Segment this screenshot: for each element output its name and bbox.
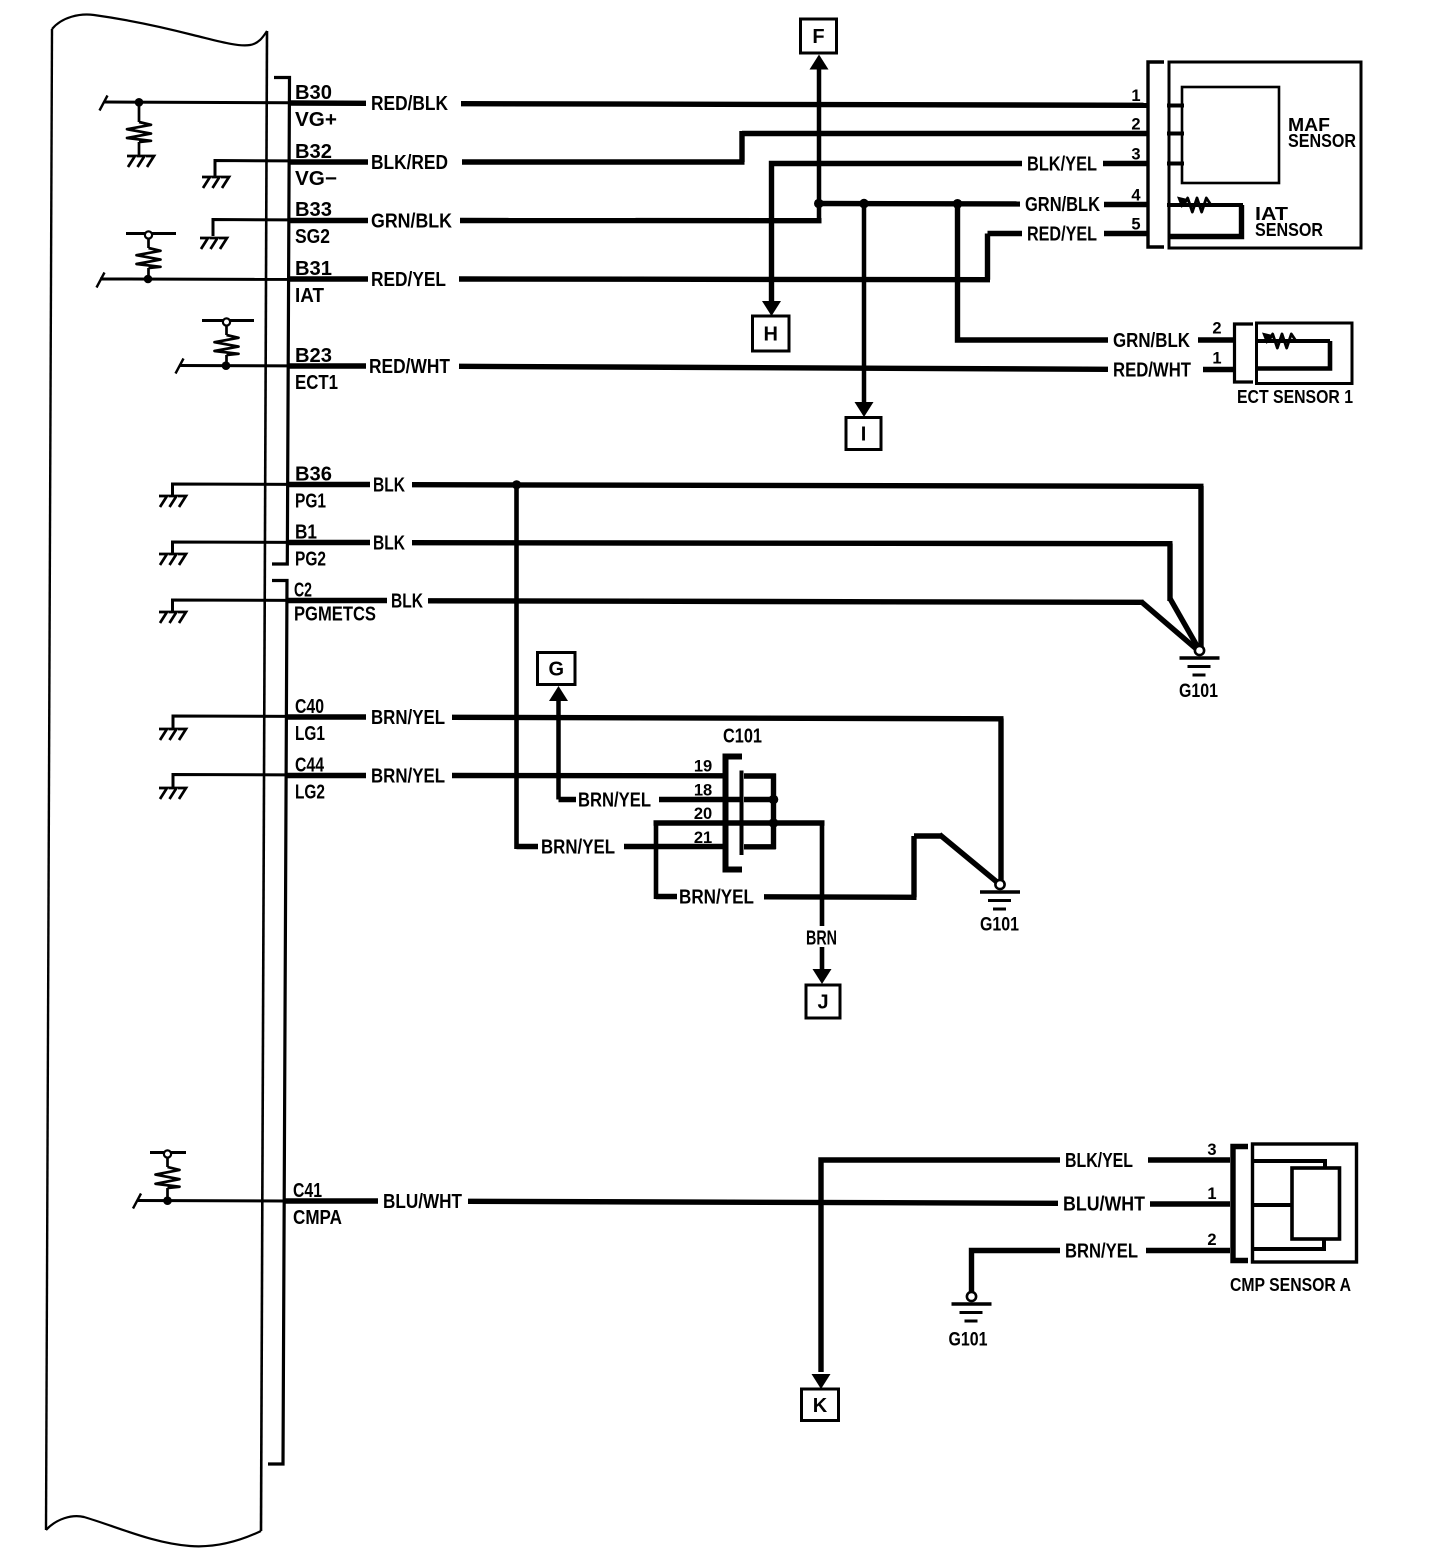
- connector K box: [802, 1389, 839, 1421]
- wire BRN/YEL up step: [911, 836, 916, 897]
- svg-text:G101: G101: [949, 1330, 988, 1351]
- svg-text:2: 2: [1207, 1231, 1216, 1249]
- ECT sensor box: [1257, 323, 1353, 384]
- pin C2 label: [294, 580, 312, 602]
- CMP pin 2 internal wiring: [1254, 1238, 1324, 1249]
- wire BLK/YEL CMP pin 3 stub: [1148, 1157, 1230, 1162]
- pin PG1 label: [295, 491, 326, 513]
- node junction tie-20: [769, 818, 779, 828]
- pin 2 label (MAF): [1131, 116, 1140, 134]
- svg-text:LG2: LG2: [295, 782, 325, 804]
- label BRN/YEL (C101 pin 21): [541, 837, 615, 859]
- internal supply tap C41 (bar+circle): [150, 1150, 186, 1157]
- connector J box: [806, 985, 840, 1018]
- svg-text:BLK: BLK: [391, 591, 423, 613]
- wire C41 internal (ECU): [137, 1199, 285, 1203]
- label BRN (J): [803, 926, 841, 950]
- wire BRN/YEL C44 to C101 pin 19: [452, 773, 726, 779]
- wire BLK/YEL corner (CMP): [821, 1160, 1060, 1372]
- wire GRN/BLK to ECT corner: [958, 204, 1109, 341]
- ECT loop wiring: [1257, 341, 1330, 369]
- arrow into F: [810, 55, 829, 70]
- wire BLK drop B36 to C101 pin 21: [514, 485, 519, 850]
- svg-text:BLK: BLK: [373, 475, 405, 497]
- svg-text:VG−: VG−: [295, 168, 337, 190]
- label BLK/RED: [371, 152, 448, 174]
- pin 19 label: [694, 758, 712, 776]
- svg-text:K: K: [813, 1395, 828, 1417]
- node junction GRN/BLK-I: [859, 199, 869, 209]
- svg-text:SG2: SG2: [295, 226, 330, 248]
- connector G box: [538, 653, 576, 685]
- pin 5 label (MAF): [1131, 216, 1140, 234]
- pin 20 label: [694, 805, 712, 823]
- node junction BLK-B36/C101-21: [512, 480, 521, 489]
- wire drop to connector J: [820, 823, 825, 969]
- svg-text:CMPA: CMPA: [293, 1207, 342, 1229]
- svg-text:SENSOR: SENSOR: [1255, 220, 1323, 240]
- label BLK/YEL (MAF pin 3): [1027, 154, 1097, 176]
- pin B23 label: [295, 345, 332, 367]
- wire C101 pin 19 stub: [744, 773, 776, 778]
- label GRN/BLK (ECT pin 2): [1113, 330, 1190, 352]
- CMP pin 1 internal stub: [1254, 1203, 1293, 1207]
- wire BLK B1 segment: [288, 540, 370, 545]
- node junction B23-resistor: [222, 361, 231, 370]
- wire BRN/YEL pin18 right: [659, 797, 742, 802]
- svg-text:BRN: BRN: [806, 928, 837, 950]
- arrow into I: [855, 402, 874, 417]
- svg-text:5: 5: [1131, 216, 1140, 234]
- svg-text:3: 3: [1207, 1141, 1216, 1159]
- wire BLU/WHT long: [468, 1201, 1058, 1203]
- wire RED/WHT B23 segment: [288, 363, 366, 368]
- arrow into G: [549, 686, 568, 701]
- pin PGMETCS label: [294, 604, 376, 626]
- wire BLK/YEL pin 3 stub: [1103, 161, 1148, 166]
- svg-text:PGMETCS: PGMETCS: [294, 604, 376, 626]
- pin B32 label: [295, 141, 332, 163]
- wire BLK B1 long: [412, 543, 1173, 544]
- svg-text:3: 3: [1131, 146, 1140, 164]
- label G101 (right): [1179, 681, 1218, 702]
- connector H box: [753, 316, 790, 351]
- pin B1 label: [295, 522, 317, 544]
- terminal slash B30: [100, 96, 108, 111]
- wire RED/YEL riser: [985, 234, 990, 280]
- ECT thermistor: [1255, 333, 1330, 349]
- label BRN/YEL (pin 20 ground): [679, 887, 754, 909]
- label GRN/BLK: [371, 211, 452, 233]
- wire BRN/YEL C40 long: [452, 717, 1004, 719]
- ground G101 (right): [1180, 646, 1220, 675]
- ground (C40 internal): [159, 729, 186, 740]
- svg-text:IAT: IAT: [295, 285, 324, 307]
- wire BRN/YEL C40 drop to G101: [998, 719, 1003, 881]
- label BRN/YEL (C101 pin 18): [578, 790, 651, 812]
- wire B36 internal step: [173, 484, 291, 495]
- wire BLK/RED B32 segment: [288, 159, 368, 164]
- wire C101 pin 18 stub: [744, 797, 776, 802]
- label RED/BLK: [371, 93, 448, 115]
- wire GRN/BLK ECT pin 2 stub: [1198, 337, 1234, 342]
- svg-text:2: 2: [1212, 320, 1221, 338]
- pin B33 label: [295, 199, 332, 221]
- wire BRN/YEL pin21 right: [624, 844, 726, 849]
- wire BRN/YEL top step: [914, 833, 942, 838]
- pin 1 label (CMP): [1207, 1185, 1216, 1203]
- wire RED/BLK B30 segment: [288, 100, 366, 106]
- svg-text:VG+: VG+: [295, 109, 337, 131]
- svg-text:H: H: [764, 324, 778, 346]
- wire GRN/BLK B33 segment: [288, 218, 368, 223]
- svg-text:LG1: LG1: [295, 723, 325, 745]
- wire RED/YEL B31 segment: [288, 276, 368, 281]
- label GRN/BLK (MAF pin 4): [1025, 194, 1100, 216]
- CMP pin 3 internal wiring: [1254, 1161, 1325, 1169]
- pin PG2 label: [295, 549, 326, 571]
- wire C101 pin 20 stub: [744, 820, 776, 825]
- MAF pin 3 internal stub: [1167, 162, 1184, 166]
- pin 21 label: [694, 829, 712, 847]
- node junction GRN/BLK-ECT: [953, 199, 963, 209]
- wire RED/YEL pin 5 stub: [1104, 231, 1148, 236]
- pin 4 label (MAF): [1131, 187, 1141, 205]
- wire GRN/BLK mid: [460, 218, 822, 224]
- pin C44 label: [295, 755, 325, 777]
- wire RED/YEL upper: [988, 231, 1023, 236]
- wire BRN/YEL bottom run: [764, 894, 917, 900]
- wire BLK C2 diagonal to G101: [1141, 602, 1198, 651]
- resistor R-B30 to ground: [127, 102, 151, 156]
- internal supply tap B31 (bar+circle): [126, 231, 176, 238]
- pin 2 label (ECT): [1212, 320, 1221, 338]
- wire BRN/YEL CMP pin 2 stub: [1146, 1248, 1230, 1253]
- wire C44 internal step: [173, 775, 288, 788]
- arrow into K: [812, 1374, 831, 1389]
- label BLU/WHT: [383, 1191, 462, 1213]
- label RED/YEL (MAF pin 5): [1027, 224, 1097, 246]
- label RED/WHT: [369, 356, 450, 378]
- pin ECT1 label: [295, 372, 338, 394]
- label CMP SENSOR A: [1230, 1275, 1351, 1295]
- wire B23 internal (ECU): [179, 364, 290, 367]
- wire pin 20 drop: [654, 823, 659, 899]
- wire C101 pin 21 stub: [744, 844, 776, 849]
- svg-text:21: 21: [694, 829, 712, 847]
- label RED/YEL: [371, 269, 446, 291]
- node junction tie-18: [769, 795, 779, 805]
- svg-text:BRN/YEL: BRN/YEL: [578, 790, 651, 812]
- pin B30 label: [295, 82, 332, 104]
- svg-text:CMP SENSOR A: CMP SENSOR A: [1230, 1275, 1351, 1295]
- connector I box: [846, 418, 881, 450]
- wire RED/WHT long: [459, 366, 1108, 369]
- node junction C41-resistor: [163, 1196, 172, 1205]
- svg-text:BRN/YEL: BRN/YEL: [371, 766, 445, 788]
- pin CMPA label: [293, 1207, 342, 1229]
- label G101 (bottom): [949, 1330, 988, 1351]
- svg-text:1: 1: [1207, 1185, 1216, 1203]
- label BLK/YEL (CMP pin 3): [1065, 1150, 1133, 1172]
- svg-text:B33: B33: [295, 199, 332, 221]
- wire BLK B1 drop: [1167, 544, 1172, 602]
- wire BLK B36 drop to G101: [1198, 486, 1203, 648]
- wire riser to connector G: [556, 699, 561, 800]
- label C101: [723, 726, 762, 748]
- svg-text:RED/YEL: RED/YEL: [1027, 224, 1097, 246]
- connector F box: [801, 19, 837, 53]
- ground (B1 internal): [159, 554, 186, 565]
- pin 18 label: [694, 782, 712, 800]
- svg-text:BRN/YEL: BRN/YEL: [371, 707, 445, 729]
- pin 2 label (CMP): [1207, 1231, 1216, 1249]
- pin LG2 label: [295, 782, 325, 804]
- wire pin 20 to J branch: [774, 820, 825, 825]
- svg-text:BLU/WHT: BLU/WHT: [1063, 1194, 1145, 1216]
- label MAF SENSOR: [1288, 115, 1356, 151]
- svg-text:F: F: [812, 26, 824, 48]
- wire C101 tie bus: [771, 774, 776, 850]
- wire riser to connector F: [817, 67, 822, 223]
- ECT connector bracket: [1235, 324, 1254, 382]
- wire B32 internal step: [215, 161, 290, 177]
- wire C40 internal step: [173, 716, 288, 728]
- wire BLK B36 segment: [288, 482, 370, 487]
- wire B30 internal (ECU): [104, 101, 290, 105]
- svg-text:4: 4: [1131, 187, 1141, 205]
- wire RED/BLK to MAF pin 1: [461, 104, 1148, 106]
- svg-text:ECT SENSOR 1: ECT SENSOR 1: [1237, 387, 1353, 407]
- wire BRN/YEL corner (CMP): [972, 1251, 1061, 1293]
- svg-text:1: 1: [1131, 87, 1140, 105]
- label RED/WHT (ECT pin 1): [1113, 360, 1191, 382]
- svg-text:BLK/RED: BLK/RED: [371, 152, 448, 174]
- svg-text:2: 2: [1131, 116, 1140, 134]
- wire BLK C2 segment: [288, 598, 387, 603]
- ground (B32 internal): [202, 177, 229, 188]
- svg-text:BLK/YEL: BLK/YEL: [1027, 154, 1097, 176]
- ECM/PCM block left border (torn strip): [46, 29, 52, 1530]
- label ECT SENSOR 1: [1237, 387, 1353, 407]
- ground (C2 internal): [159, 612, 186, 623]
- wire BRN/YEL C44 segment: [286, 773, 366, 778]
- wire C101 pin 20 left: [654, 820, 745, 825]
- arrow into H: [762, 301, 781, 316]
- pin C40 label: [295, 696, 324, 718]
- svg-text:C101: C101: [723, 726, 762, 748]
- wire BLK/YEL corner: [772, 164, 1023, 304]
- svg-text:G: G: [548, 659, 564, 681]
- wire BLK/RED mid: [462, 159, 745, 164]
- pin 1 label (MAF): [1131, 87, 1140, 105]
- ground G101 (center): [980, 880, 1020, 909]
- IAT loop wiring: [1169, 205, 1242, 237]
- wire BLU/WHT CMP pin 1 stub: [1150, 1201, 1230, 1206]
- wire GRN/BLK bus to MAF pin 4: [817, 201, 1021, 207]
- pin B36 label: [295, 464, 332, 486]
- MAF sensor outer box: [1169, 62, 1361, 248]
- wire B33 internal step: [213, 220, 290, 237]
- wire BLK B1 diagonal to G101: [1170, 599, 1199, 649]
- wire B1 internal step: [173, 542, 291, 553]
- terminal slash B23: [176, 359, 184, 374]
- CMP connector bracket: [1233, 1147, 1248, 1261]
- PCM connector bracket (B pins): [272, 78, 290, 565]
- wire drop to connector I: [862, 204, 867, 404]
- ECM/PCM block torn top edge: [52, 15, 267, 46]
- svg-text:GRN/BLK: GRN/BLK: [1025, 194, 1100, 216]
- label BRN/YEL (C40): [371, 707, 445, 729]
- ground (C44 internal): [159, 788, 186, 799]
- ground (B30 internal): [127, 156, 154, 167]
- svg-text:G101: G101: [1179, 681, 1218, 702]
- pin 3 label (MAF): [1131, 146, 1140, 164]
- node junction B30-resistor: [135, 98, 144, 107]
- svg-text:J: J: [817, 992, 828, 1014]
- CMP sensor inner element: [1292, 1168, 1340, 1239]
- svg-text:GRN/BLK: GRN/BLK: [371, 211, 452, 233]
- wire RED/WHT ECT pin 1 stub: [1203, 367, 1234, 372]
- label BLK (B36): [373, 475, 405, 497]
- wire B31 internal (ECU): [100, 278, 290, 281]
- node junction B31-resistor: [144, 275, 153, 284]
- CMP sensor box: [1253, 1144, 1357, 1262]
- label BRN/YEL (CMP pin 2): [1065, 1241, 1138, 1263]
- svg-text:GRN/BLK: GRN/BLK: [1113, 330, 1190, 352]
- MAF pin 2 internal stub: [1167, 132, 1184, 136]
- svg-text:G101: G101: [980, 915, 1019, 936]
- wire BLK/RED to MAF pin 2: [742, 131, 1148, 136]
- svg-text:PG1: PG1: [295, 491, 326, 513]
- svg-text:RED/WHT: RED/WHT: [369, 356, 450, 378]
- ground (B33 internal): [200, 238, 227, 249]
- svg-text:PG2: PG2: [295, 549, 326, 571]
- connector C101 left half: [726, 757, 743, 870]
- node junction GRN/BLK-F: [814, 199, 824, 209]
- label BLK (C2): [391, 591, 423, 613]
- pin VG+ label: [295, 109, 337, 131]
- wire BRN/YEL diagonal to G101: [940, 835, 998, 883]
- wire BRN/YEL C40 segment: [286, 714, 366, 719]
- wire RED/YEL mid: [459, 276, 990, 282]
- pin IAT label: [295, 285, 324, 307]
- resistor R-C41 pull-up: [156, 1158, 180, 1201]
- MAF pin 1 internal stub: [1167, 104, 1184, 108]
- wire GRN/BLK pin 4 stub: [1104, 202, 1148, 207]
- wire BLK B36 long: [412, 485, 1204, 487]
- svg-text:I: I: [861, 424, 867, 446]
- label IAT SENSOR: [1255, 204, 1323, 240]
- wire to C101 pin 21 left: [517, 844, 539, 849]
- resistor R-B31 pull-up: [137, 239, 161, 279]
- svg-text:SENSOR: SENSOR: [1288, 131, 1356, 151]
- wire C2 internal step: [173, 600, 291, 611]
- wire pin 20 bottom left: [656, 894, 677, 899]
- svg-text:BRN/YEL: BRN/YEL: [541, 837, 615, 859]
- svg-text:18: 18: [694, 782, 712, 800]
- ground (B36 internal): [159, 496, 186, 507]
- wire BLK/RED riser: [739, 131, 744, 162]
- PCM connector bracket (C pins): [268, 581, 287, 1465]
- MAF sensor inner element: [1182, 87, 1279, 183]
- svg-text:RED/WHT: RED/WHT: [1113, 360, 1191, 382]
- svg-text:BLU/WHT: BLU/WHT: [383, 1191, 462, 1213]
- pin 3 label (CMP): [1207, 1141, 1216, 1159]
- pin 1 label (ECT): [1212, 350, 1221, 368]
- terminal slash C41: [133, 1194, 141, 1209]
- ECM/PCM block right border: [261, 31, 267, 1531]
- wire G to pin 18 left: [559, 797, 577, 802]
- wire BLK C2 long: [428, 601, 1144, 603]
- pin LG1 label: [295, 723, 325, 745]
- pin SG2 label: [295, 226, 330, 248]
- label BRN/YEL (C44): [371, 766, 445, 788]
- svg-text:ECT1: ECT1: [295, 372, 338, 394]
- MAF connector bracket: [1148, 62, 1164, 247]
- svg-text:BRN/YEL: BRN/YEL: [679, 887, 754, 909]
- svg-text:BLK: BLK: [373, 533, 405, 555]
- pin B31 label: [295, 258, 332, 280]
- label G101 (center): [980, 915, 1019, 936]
- svg-text:RED/BLK: RED/BLK: [371, 93, 448, 115]
- svg-text:1: 1: [1212, 350, 1221, 368]
- resistor R-B23 pull-up: [215, 326, 239, 366]
- pin VG&#8722; label: [295, 168, 337, 190]
- ECM/PCM block torn bottom edge: [46, 1516, 261, 1546]
- arrow into J: [813, 969, 832, 984]
- IAT thermistor (inside MAF): [1167, 197, 1243, 213]
- label BLK (B1): [373, 533, 405, 555]
- svg-text:BLK/YEL: BLK/YEL: [1065, 1150, 1133, 1172]
- pin C41 label: [293, 1180, 322, 1202]
- ground G101 (bottom): [952, 1292, 992, 1321]
- svg-text:BRN/YEL: BRN/YEL: [1065, 1241, 1138, 1263]
- internal supply tap B23 (bar+circle): [202, 318, 254, 325]
- connector C101 right half: [740, 771, 744, 856]
- label BLU/WHT (CMP pin 1): [1063, 1194, 1145, 1216]
- wire BLU/WHT C41 segment: [283, 1198, 378, 1203]
- svg-text:RED/YEL: RED/YEL: [371, 269, 446, 291]
- svg-text:19: 19: [694, 758, 712, 776]
- terminal slash B31: [97, 273, 105, 288]
